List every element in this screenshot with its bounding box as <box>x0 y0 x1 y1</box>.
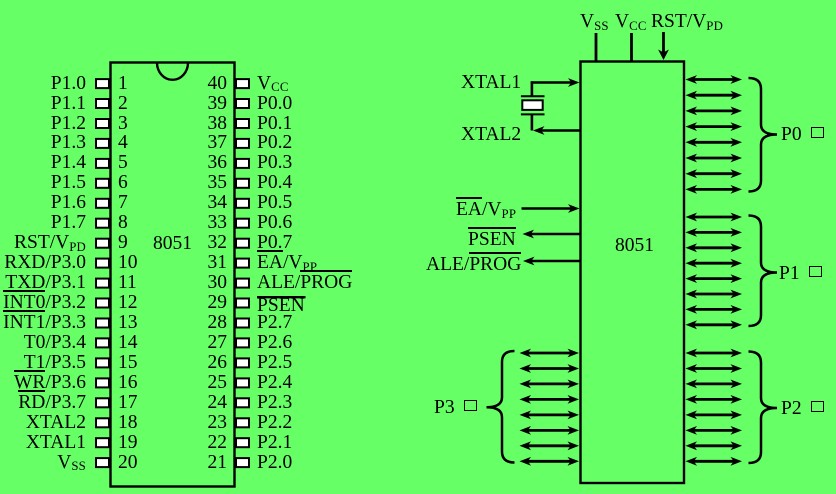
net label VSS <box>580 12 609 32</box>
pin 10 pad <box>96 259 109 268</box>
pin 16 pad <box>96 378 109 387</box>
port P2 bit 0 bus arrow <box>686 349 743 358</box>
port P1 bit 5 bus arrow <box>686 290 743 299</box>
pin 39 number <box>190 94 227 114</box>
pin 12 pad <box>96 299 109 308</box>
pin 34 label P0.5 <box>257 193 292 213</box>
port P0 bit 1 bus arrow <box>686 91 743 100</box>
pin 20 number <box>118 453 138 473</box>
pin 26 number <box>190 353 227 373</box>
pin 5 number <box>118 153 128 173</box>
port P2 bit 2 bus arrow <box>686 380 743 389</box>
pin 33 label P0.6 <box>257 213 292 233</box>
net label EA/VPP <box>456 200 516 220</box>
pin 19 pad <box>96 438 109 447</box>
pin 1 pad <box>96 79 109 88</box>
port P0 bit 6 bus arrow <box>686 169 743 178</box>
pin 13 label INT1/P3.3 <box>3 313 86 333</box>
port P2 bit 6 bus arrow <box>686 441 743 450</box>
pin 19 label XTAL1 <box>26 433 86 453</box>
pin 27 number <box>190 333 227 353</box>
wire PSEN out of block <box>523 230 581 239</box>
pin 29 label PSEN <box>257 296 305 316</box>
port P1 bit 1 bus arrow <box>686 228 743 237</box>
pin 33 number <box>190 213 227 233</box>
wire VSS stub into block <box>595 33 598 62</box>
pin 13 number <box>118 313 138 333</box>
wire EA/VPP into block <box>522 204 580 213</box>
pin 39 label P0.0 <box>257 94 292 114</box>
net label ALE/PROG <box>426 255 521 275</box>
pin 32 number <box>190 233 227 253</box>
pin 18 number <box>118 413 138 433</box>
pin 16 label WR/P3.6 <box>14 373 86 393</box>
pin 38 label P0.1 <box>257 114 292 134</box>
pin 32 label P0.7 <box>257 233 292 253</box>
pin 40 label VCC <box>257 74 289 94</box>
IC U1 part name 8051 <box>111 234 235 254</box>
pin 35 label P0.4 <box>257 173 292 193</box>
pin 6 number <box>118 173 128 193</box>
port P3 bit 7 bus arrow <box>520 457 580 466</box>
wire crystal down to XTAL2 <box>531 114 534 130</box>
port P2 bit 7 bus arrow <box>686 457 743 466</box>
pin 24 pad <box>236 398 249 407</box>
pin 3 pad <box>96 119 109 128</box>
pin 20 label VSS <box>57 453 86 473</box>
node label XTAL2 <box>461 125 521 145</box>
pin 5 pad <box>96 159 109 168</box>
pin 36 pad <box>236 159 249 168</box>
net label PSEN <box>468 230 516 250</box>
pin 33 pad <box>236 219 249 228</box>
port label P1 <box>779 264 822 284</box>
pin 23 pad <box>236 418 249 427</box>
pin 20 pad <box>96 458 109 467</box>
pin 15 label T1/P3.5 <box>24 353 86 373</box>
port label P3 <box>434 398 477 418</box>
pin 26 pad <box>236 358 249 367</box>
pin 6 label P1.5 <box>51 173 86 193</box>
port P3 bit 2 bus arrow <box>520 380 580 389</box>
pin 14 label T0/P3.4 <box>24 333 86 353</box>
port label P2 <box>781 399 824 419</box>
pin 38 pad <box>236 119 249 128</box>
port P1 bit 3 bus arrow <box>686 259 743 268</box>
pin 11 pad <box>96 279 109 288</box>
pin 23 number <box>190 413 227 433</box>
port P3 bit 3 bus arrow <box>520 395 580 404</box>
pin 17 label RD/P3.7 <box>18 393 86 413</box>
pin 31 pad <box>236 259 249 268</box>
pin 29 number <box>190 293 227 313</box>
pin 28 pad <box>236 319 249 328</box>
pin 9 label RST/VPD <box>14 233 86 253</box>
pin 7 pad <box>96 199 109 208</box>
port P2 bit 3 bus arrow <box>686 395 743 404</box>
pin 37 number <box>190 133 227 153</box>
pin 32 pad <box>236 239 249 248</box>
pin 21 number <box>190 453 227 473</box>
pin 5 label P1.4 <box>51 153 86 173</box>
IC U2 part name 8051 <box>583 236 687 256</box>
node label XTAL1 <box>461 73 521 93</box>
port P1 bit 2 bus arrow <box>686 243 743 252</box>
pin 1 number <box>118 74 128 94</box>
pin 12 label INT0/P3.2 <box>3 293 86 313</box>
crystal Y1 <box>521 96 545 114</box>
pin 2 number <box>118 94 128 114</box>
pin 12 number <box>118 293 138 313</box>
port P3 bit 5 bus arrow <box>520 426 580 435</box>
net label RST/VPD <box>651 12 723 32</box>
pin 29 pad <box>236 299 249 308</box>
port P0 bit 3 bus arrow <box>686 122 743 131</box>
pin 14 number <box>118 333 138 353</box>
pin 36 number <box>190 153 227 173</box>
wire ALE/PROG out of block <box>523 257 580 266</box>
pin 4 number <box>118 133 128 153</box>
pin 36 label P0.3 <box>257 153 292 173</box>
pin 3 label P1.2 <box>51 114 86 134</box>
port P1 bit 7 bus arrow <box>686 320 743 329</box>
wire VCC stub into block <box>630 33 633 62</box>
brace for port P3 group <box>487 351 515 463</box>
pin 24 number <box>190 393 227 413</box>
pin 4 label P1.3 <box>51 133 86 153</box>
pin 23 label P2.2 <box>257 413 292 433</box>
pin 6 pad <box>96 179 109 188</box>
port P3 bit 6 bus arrow <box>520 441 580 450</box>
port P0 bit 7 bus arrow <box>686 185 743 194</box>
pin 10 number <box>118 253 138 273</box>
pin 18 pad <box>96 418 109 427</box>
pin 10 label RXD/P3.0 <box>4 253 86 273</box>
pin 30 number <box>190 273 227 293</box>
wire XTAL1 into block <box>531 78 580 87</box>
pin 30 pad <box>236 279 249 288</box>
pin 38 number <box>190 114 227 134</box>
pin 35 pad <box>236 179 249 188</box>
port P2 bit 5 bus arrow <box>686 426 743 435</box>
port P0 bit 5 bus arrow <box>686 154 743 163</box>
port P3 bit 4 bus arrow <box>520 411 580 420</box>
port P0 bit 0 bus arrow <box>686 75 743 84</box>
brace for port P1 group <box>749 216 778 327</box>
port P2 bit 4 bus arrow <box>686 411 743 420</box>
pin 1 label P1.0 <box>51 74 86 94</box>
pin 30 label ALE/PROG <box>257 273 352 293</box>
pin 21 pad <box>236 458 249 467</box>
pin 16 number <box>118 373 138 393</box>
brace for port P0 group <box>749 78 778 192</box>
pin 8 label P1.7 <box>51 213 86 233</box>
pin 8 pad <box>96 219 109 228</box>
pin 28 label P2.7 <box>257 313 292 333</box>
pin 22 pad <box>236 438 249 447</box>
port P1 bit 6 bus arrow <box>686 305 743 314</box>
pin 25 number <box>190 373 227 393</box>
pin 14 pad <box>96 338 109 347</box>
port P3 bit 1 bus arrow <box>520 364 580 373</box>
pin 19 number <box>118 433 138 453</box>
pin 34 number <box>190 193 227 213</box>
pin 26 label P2.5 <box>257 353 292 373</box>
pin 9 pad <box>96 239 109 248</box>
pin 15 number <box>118 353 138 373</box>
pin 8 number <box>118 213 128 233</box>
pin 40 number <box>190 74 227 94</box>
pin 11 label TXD/P3.1 <box>5 273 86 293</box>
overline of DIP pin-29 PSEN label <box>257 296 306 298</box>
pin 39 pad <box>236 99 249 108</box>
port P3 bit 0 bus arrow <box>520 349 580 358</box>
pin 27 label P2.6 <box>257 333 292 353</box>
pin 7 number <box>118 193 128 213</box>
pin 22 number <box>190 433 227 453</box>
pin 25 label P2.4 <box>257 373 292 393</box>
pin 15 pad <box>96 358 109 367</box>
net label VCC <box>615 12 647 32</box>
port P2 bit 1 bus arrow <box>686 364 743 373</box>
pin 35 number <box>190 173 227 193</box>
port P0 bit 4 bus arrow <box>686 138 743 147</box>
pin 4 pad <box>96 139 109 148</box>
pin 17 pad <box>96 398 109 407</box>
pin 28 number <box>190 313 227 333</box>
pin 13 pad <box>96 319 109 328</box>
pin 17 number <box>118 393 138 413</box>
port P0 bit 2 bus arrow <box>686 107 743 116</box>
pin 31 number <box>190 253 227 273</box>
pin 9 number <box>118 233 128 253</box>
IC U1 body: 8051 DIP-40 package outline <box>111 63 235 487</box>
pin 25 pad <box>236 378 249 387</box>
port P1 bit 4 bus arrow <box>686 274 743 283</box>
pin 11 number <box>118 273 137 293</box>
wire XTAL1 down to crystal <box>531 81 534 96</box>
IC U2 body: 8051 functional block <box>581 62 685 484</box>
port label P0 <box>781 125 824 145</box>
port P1 bit 0 bus arrow <box>686 213 743 222</box>
pin 2 label P1.1 <box>51 94 86 114</box>
pin 40 pad <box>236 79 249 88</box>
pin 27 pad <box>236 338 249 347</box>
IC U1 pin-1 orientation notch <box>157 63 188 80</box>
pin 24 label P2.3 <box>257 393 292 413</box>
pin 37 label P0.2 <box>257 133 292 153</box>
pin 18 label XTAL2 <box>26 413 86 433</box>
pin 21 label P2.0 <box>257 453 292 473</box>
pin 37 pad <box>236 139 249 148</box>
pin 22 label P2.1 <box>257 433 292 453</box>
wire XTAL2 out of block <box>533 126 580 135</box>
pin 2 pad <box>96 99 109 108</box>
pin 34 pad <box>236 199 249 208</box>
pin 31 label EA/VPP <box>257 253 317 273</box>
pin 3 number <box>118 114 128 134</box>
pin 7 label P1.6 <box>51 193 86 213</box>
brace for port P2 group <box>749 352 778 464</box>
wire RST/VPD arrow into block <box>658 32 669 60</box>
